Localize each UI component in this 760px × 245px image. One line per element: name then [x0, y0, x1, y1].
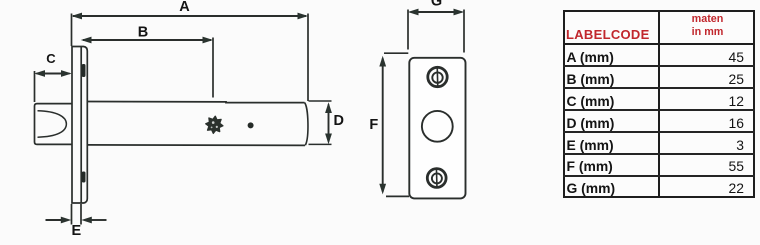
- E extension line right: [80, 204, 82, 225]
- label A: [179, 0, 190, 15]
- label E: [71, 223, 81, 239]
- D extension tick top: [309, 100, 332, 102]
- dimension line C: [34, 70, 71, 77]
- bolt nose curve: [38, 111, 67, 137]
- table row F: [567, 158, 613, 174]
- dimension line D: [325, 102, 332, 144]
- tube body top edge: [87, 102, 304, 103]
- table header maten in mm: [660, 13, 755, 38]
- table column divider: [658, 11, 660, 197]
- front centre hole: [422, 111, 453, 142]
- table row E: [567, 137, 614, 153]
- table row A: [567, 49, 614, 65]
- table row lines: [563, 65, 755, 67]
- front screw hole top: [428, 66, 447, 88]
- faceplate side view: [72, 47, 87, 204]
- extension line C left: [34, 71, 36, 102]
- front screw hole bottom: [427, 168, 446, 189]
- E extension line left: [71, 204, 73, 225]
- knurled star wheel: [206, 116, 223, 133]
- dimension line G: [408, 9, 464, 16]
- table row B: [567, 71, 615, 87]
- table header bottom border: [563, 43, 755, 45]
- faceplate screw slot upper: [82, 64, 86, 77]
- dimension line E: [46, 217, 107, 224]
- tube body bottom edge: [87, 144, 305, 147]
- table row G: [567, 180, 616, 196]
- faceplate front view: [409, 58, 465, 199]
- svg-text:A: A: [179, 0, 190, 15]
- faceplate screw slot lower: [82, 172, 86, 183]
- extension line G left: [407, 10, 409, 50]
- extension line A right: [307, 14, 309, 102]
- label B: [138, 24, 148, 40]
- bolt head outline: [35, 104, 72, 145]
- svg-text:F: F: [369, 117, 378, 133]
- svg-text:C: C: [46, 51, 56, 66]
- extension line A left: [71, 14, 73, 47]
- extension line B right: [212, 38, 214, 98]
- extension line G right: [463, 10, 465, 53]
- table frame: [563, 10, 755, 199]
- F extension top: [384, 52, 408, 54]
- label G: [431, 0, 442, 10]
- dimension line B: [81, 37, 213, 44]
- svg-text:E: E: [71, 223, 81, 239]
- F extension bottom: [386, 195, 409, 197]
- label D: [334, 113, 344, 129]
- table header LABELCODE: [566, 27, 650, 42]
- svg-text:G: G: [431, 0, 442, 10]
- svg-text:D: D: [334, 113, 344, 129]
- table row D: [567, 115, 615, 131]
- pin dot: [248, 122, 254, 128]
- tube right end: [305, 103, 308, 146]
- dimension line A: [71, 13, 308, 20]
- table row C: [567, 93, 615, 109]
- svg-text:B: B: [138, 24, 148, 40]
- D extension tick bottom: [309, 143, 332, 145]
- dimension line F: [379, 56, 386, 195]
- label C: [46, 51, 56, 66]
- label F: [369, 117, 378, 133]
